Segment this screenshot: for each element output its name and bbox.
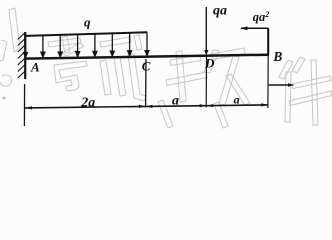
svg-text:a: a <box>234 93 240 107</box>
svg-text:B: B <box>272 49 282 64</box>
svg-text:2a: 2a <box>80 95 95 110</box>
svg-text:D: D <box>204 56 215 71</box>
svg-text:qa: qa <box>213 3 227 18</box>
svg-text:a: a <box>172 94 179 109</box>
svg-text:A: A <box>30 60 40 75</box>
svg-text:q: q <box>84 15 91 30</box>
svg-text:C: C <box>142 59 151 74</box>
